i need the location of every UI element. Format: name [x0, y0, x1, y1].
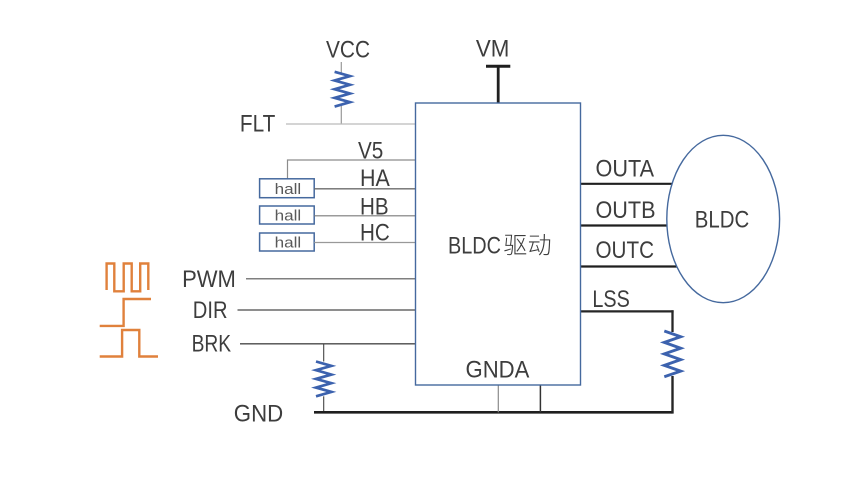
wire OUTA — [581, 183, 677, 185]
wire FLT — [286, 123, 416, 125]
wire DIR — [238, 309, 416, 311]
label VM — [476, 35, 510, 62]
label VCC — [326, 37, 370, 64]
resistor R3 (sense) — [664, 331, 680, 377]
svg-text:BLDC: BLDC — [448, 232, 501, 259]
svg-text:OUTA: OUTA — [596, 155, 655, 182]
wire LSS horizontal — [581, 310, 674, 312]
label DIR — [193, 297, 228, 324]
svg-text:GND: GND — [234, 401, 283, 428]
wire BRK — [240, 343, 416, 345]
svg-text:VCC: VCC — [326, 37, 370, 64]
wire BRK junction to R2 — [323, 344, 325, 362]
svg-text:HA: HA — [360, 165, 390, 192]
wire VCC to FLT net (upper stub) — [340, 62, 342, 73]
wire VCC to FLT net (lower stub) — [340, 106, 342, 124]
label V5 — [358, 138, 383, 165]
PWM waveform icon — [107, 264, 149, 292]
wire V5 — [288, 160, 416, 179]
BRK waveform icon — [100, 330, 158, 357]
hall sensor box 2 — [260, 206, 315, 225]
wire R3 to GND bus — [671, 376, 673, 414]
label OUTA — [596, 155, 655, 182]
resistor R2 (BRK pull-down) — [316, 362, 331, 397]
wire OUTC — [581, 265, 681, 267]
svg-text:FLT: FLT — [240, 111, 276, 138]
wire VM to U1 — [497, 66, 500, 103]
label FLT — [240, 111, 276, 138]
label BRK — [192, 331, 232, 358]
wire GND bus — [314, 411, 673, 414]
label OUTC — [596, 237, 655, 264]
svg-text:DIR: DIR — [193, 297, 228, 324]
label PWM — [182, 266, 236, 293]
wire HC — [314, 242, 415, 244]
svg-text:OUTB: OUTB — [596, 197, 656, 224]
svg-text:PWM: PWM — [182, 266, 236, 293]
wire GNDA stub left — [497, 385, 499, 412]
hall sensor box 3 — [260, 233, 315, 252]
svg-text:hall: hall — [275, 181, 302, 198]
wire HA — [314, 188, 415, 190]
label HB — [360, 194, 389, 221]
wire OUTB — [581, 224, 677, 226]
svg-text:LSS: LSS — [592, 286, 629, 313]
wire HB — [314, 215, 415, 217]
label U1 BLDC drive (BLDC驱动) — [448, 232, 550, 259]
svg-text:GNDA: GNDA — [466, 357, 530, 384]
svg-text:VM: VM — [476, 35, 510, 62]
label GNDA — [466, 357, 530, 384]
svg-text:HB: HB — [360, 194, 389, 221]
wire PWM — [246, 278, 416, 280]
label LSS — [592, 286, 629, 313]
label OUTB — [596, 197, 656, 224]
label GND — [234, 401, 283, 428]
motor M1 (BLDC) ellipse — [667, 135, 780, 302]
DIR waveform icon — [100, 299, 151, 326]
wire GNDA stub right — [539, 385, 541, 412]
driver IC U1 box — [416, 103, 581, 385]
label BLDC motor — [695, 207, 749, 234]
svg-text:BRK: BRK — [192, 331, 232, 358]
svg-text:BLDC: BLDC — [695, 207, 749, 234]
power rail VM T-bar — [486, 65, 510, 68]
label HA — [360, 165, 390, 192]
svg-text:hall: hall — [275, 208, 302, 225]
wire R2 to GND bus — [323, 396, 325, 412]
hall sensor box 1 — [260, 179, 315, 198]
label HC — [360, 220, 390, 247]
wire LSS down to R3 — [671, 310, 673, 332]
resistor R1 (VCC pull-up) — [335, 72, 350, 107]
svg-text:OUTC: OUTC — [596, 237, 655, 264]
svg-text:hall: hall — [275, 235, 302, 252]
